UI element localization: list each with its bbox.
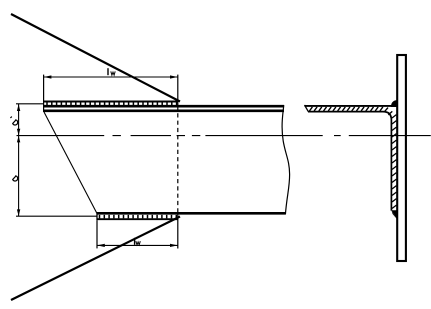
weld band bottom (lap weld, ladder hatch) [97,213,178,220]
dimension e' / e : extension line top [16,103,44,105]
cone surface line upper (long thick diagonal) [11,14,180,102]
weld fillet top (filled) [391,100,397,107]
pipe top outer wall line [44,105,284,108]
label lw bottom (drawn) [135,238,141,245]
wire: cone inner edge thin diagonal [44,112,97,214]
wall plate (vertical plate at right) [397,55,406,261]
label lw top (drawn) [108,68,115,75]
dimension lw top : left extension line [43,75,45,112]
centerline (pipe axis, dash-dot) [17,135,431,137]
hatch of vertical flange section along wall [392,115,396,209]
dimension e'/e vertical dimension line [17,104,20,216]
weld fillet bottom (filled) [391,210,396,219]
label e (rotated, drawn) [13,176,18,181]
cone surface line lower (long thick diagonal) [11,217,180,301]
dimension lw top/bottom : right extension line with hidden dashed part [177,75,179,249]
dimension lw bottom : left extension line [96,220,98,248]
dimension e : extension line bottom [16,215,97,217]
hatch of top wall section [309,107,392,115]
dimension lw top : dimension line with arrows [44,75,178,78]
pipe top inner wall line [44,110,284,113]
dimension lw bottom : dimension line with arrows [97,244,178,247]
flanged pipe end at wall : top wall section (hatched) [305,105,397,211]
pipe bottom wall line [97,212,286,215]
pipe break line (wavy) [282,105,290,214]
weld band top (lap weld, ladder hatch) [44,102,178,106]
label e' (rotated, drawn) [10,117,17,125]
